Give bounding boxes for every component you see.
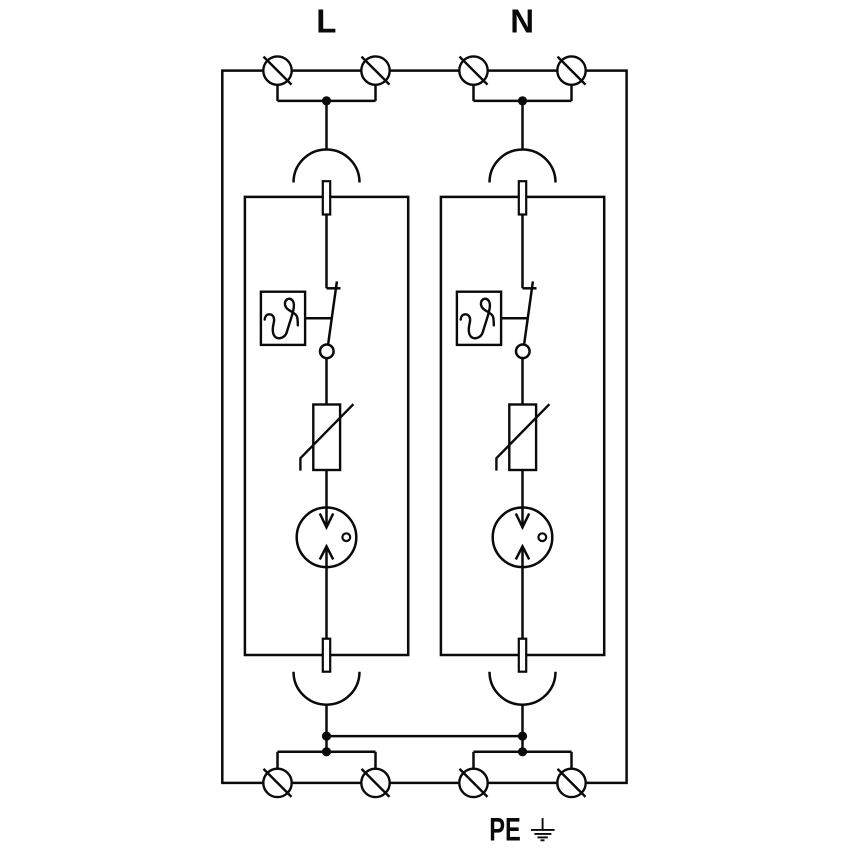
module outline: [245, 197, 408, 655]
plug-in contact arc top: [490, 150, 556, 183]
wire: arc to bottom junctions: [521, 705, 524, 752]
node: equipotential junction: [518, 732, 527, 741]
disconnector blade: [328, 281, 337, 344]
svg-text:PE: PE: [489, 812, 521, 847]
plug-in contact arc bottom: [294, 672, 360, 705]
wire: lug to disconnector: [325, 215, 328, 289]
terminal circle top 2: [361, 56, 389, 84]
arrowhead up: [516, 546, 529, 559]
wire: varistor to indicator: [521, 470, 524, 527]
node: bottom junction: [322, 747, 331, 756]
ground symbol: [531, 818, 555, 840]
arrowhead down: [320, 514, 333, 528]
terminal circle top 4: [557, 56, 585, 84]
thermal theta symbol: [265, 299, 298, 339]
wire: bottom bus: [278, 751, 376, 754]
terminal lug bottom: [323, 639, 330, 672]
wire: top bus: [474, 100, 572, 103]
wire: contact to varistor: [521, 358, 524, 404]
arrowhead down: [516, 514, 529, 528]
terminal lug top: [323, 181, 330, 214]
node: top junction: [322, 96, 331, 105]
wire: bottom bus: [474, 751, 572, 754]
wire: top-left terminal drop: [276, 82, 279, 101]
indicator window dot: [538, 533, 546, 541]
terminal circle bottom 1: [263, 769, 291, 797]
svg-text:L: L: [316, 2, 336, 39]
varistor body: [509, 405, 536, 471]
terminal circle bottom 2: [361, 769, 389, 797]
thermal disconnect box: [457, 292, 501, 345]
node: top junction: [518, 96, 527, 105]
disconnector blade: [524, 281, 533, 344]
wire: top-right terminal drop: [374, 82, 377, 101]
indicator window dot: [342, 533, 350, 541]
thermal disconnect box: [261, 292, 305, 345]
wire: varistor to indicator: [325, 470, 328, 527]
wire: top-left terminal drop: [472, 82, 475, 101]
wire: bottom-right terminal riser: [374, 752, 377, 771]
channel L: [245, 82, 408, 771]
varistor diagonal: [496, 404, 549, 470]
wire: thermal box to blade: [501, 317, 528, 320]
status indicator circle: [493, 508, 553, 568]
wire: bottom-left terminal riser: [276, 752, 279, 771]
wire: junction to plug contact: [521, 101, 524, 150]
arrowhead up: [320, 546, 333, 559]
plug-in contact arc bottom: [490, 672, 556, 705]
wire: indicator to bottom lug: [521, 546, 524, 638]
node: bottom junction: [518, 747, 527, 756]
terminal circle top 3: [459, 56, 487, 84]
terminal circle top 1: [263, 56, 291, 84]
disconnector fixed contact tick: [523, 287, 537, 290]
terminal lug top: [519, 181, 526, 214]
wire: top bus: [278, 100, 376, 103]
varistor body: [313, 405, 340, 471]
wire: top-right terminal drop: [570, 82, 573, 101]
module outline: [441, 197, 604, 655]
varistor diagonal: [300, 404, 353, 470]
terminal circle bottom 3: [459, 769, 487, 797]
terminal circle bottom 4: [557, 769, 585, 797]
wire: indicator to bottom lug: [325, 546, 328, 638]
wire: contact to varistor: [325, 358, 328, 404]
wire: bottom-right terminal riser: [570, 752, 573, 771]
wire: cross link between channels: [327, 735, 523, 738]
wire: junction to plug contact: [325, 101, 328, 150]
svg-text:N: N: [510, 2, 534, 39]
wire: arc to bottom junctions: [325, 705, 328, 752]
disconnector moving contact circle: [320, 345, 334, 359]
status indicator circle: [297, 508, 357, 568]
plug-in contact arc top: [294, 150, 360, 183]
terminal lug bottom: [519, 639, 526, 672]
wire: lug to disconnector: [521, 215, 524, 289]
disconnector fixed contact tick: [327, 287, 341, 290]
disconnector moving contact circle: [516, 345, 530, 359]
wire: thermal box to blade: [305, 317, 332, 320]
thermal theta symbol: [461, 299, 494, 339]
outer enclosure border: [222, 71, 626, 783]
node: equipotential junction: [322, 732, 331, 741]
wire: bottom-left terminal riser: [472, 752, 475, 771]
channel N: [441, 82, 604, 771]
